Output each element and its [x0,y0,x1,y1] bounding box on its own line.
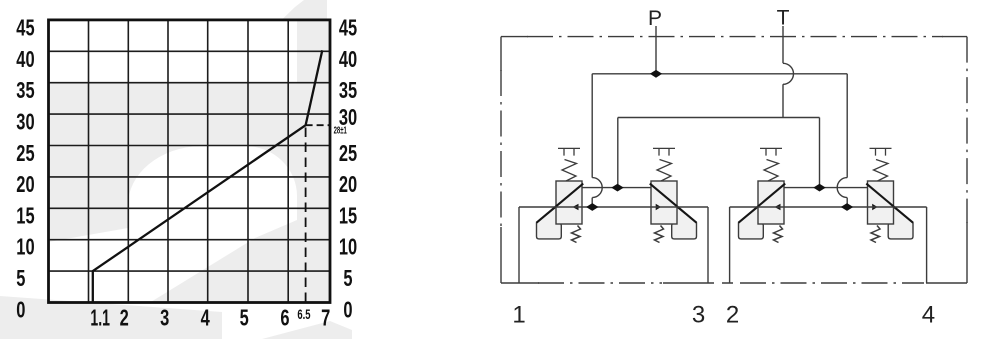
svg-text:4: 4 [201,306,211,331]
svg-text:45: 45 [339,16,357,41]
svg-text:35: 35 [339,79,357,104]
svg-text:15: 15 [16,204,34,229]
svg-text:2: 2 [120,306,129,331]
svg-text:20: 20 [339,172,357,197]
svg-text:T: T [777,6,790,29]
svg-text:40: 40 [339,47,357,72]
svg-text:35: 35 [16,79,34,104]
svg-text:20: 20 [16,172,34,197]
svg-text:10: 10 [339,235,357,260]
svg-text:5: 5 [16,266,25,291]
svg-text:2: 2 [726,302,739,329]
svg-text:15: 15 [339,204,357,229]
svg-text:7: 7 [321,306,330,331]
svg-text:25: 25 [16,141,34,166]
svg-text:6: 6 [280,306,289,331]
svg-text:P: P [648,7,662,30]
svg-text:30: 30 [16,110,34,135]
svg-text:5: 5 [343,266,352,291]
svg-text:0: 0 [343,298,352,323]
svg-text:40: 40 [16,47,34,72]
svg-text:4: 4 [922,302,935,329]
svg-text:10: 10 [16,235,34,260]
svg-text:28±1: 28±1 [334,125,348,136]
svg-text:5: 5 [240,306,249,331]
svg-text:0: 0 [16,298,25,323]
svg-text:1.1: 1.1 [90,305,110,332]
svg-text:6.5: 6.5 [297,308,311,323]
svg-text:25: 25 [339,141,357,166]
svg-text:3: 3 [692,302,705,329]
svg-text:45: 45 [16,16,34,41]
svg-text:3: 3 [160,306,169,331]
svg-text:1: 1 [512,302,525,329]
